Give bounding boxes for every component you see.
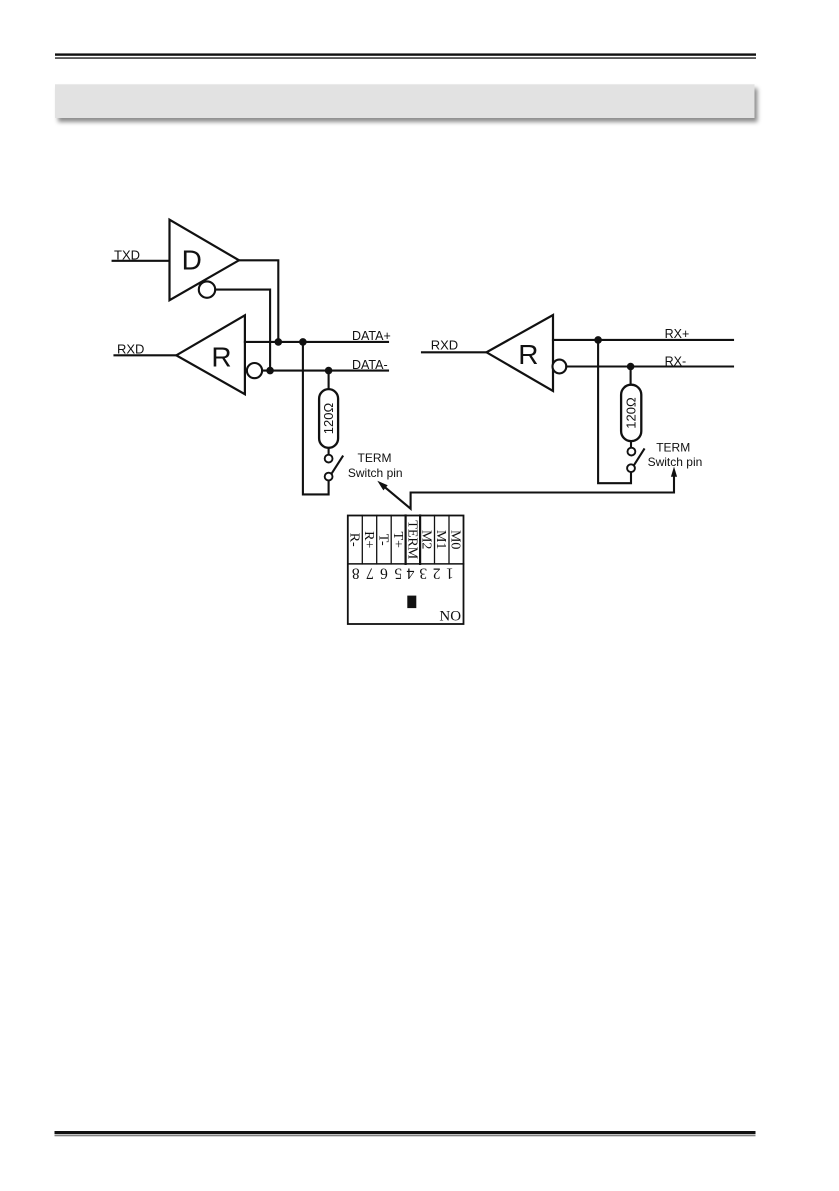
svg-text:Switch pin: Switch pin: [348, 466, 403, 480]
TERM switch S1: [325, 455, 343, 481]
svg-text:RXD: RXD: [431, 338, 458, 353]
wire DATA+ to switch bottom: [303, 342, 329, 495]
svg-text:RX-: RX-: [665, 354, 687, 368]
arrowhead at left Switch pin label: [377, 481, 387, 491]
svg-text:NO: NO: [439, 609, 461, 625]
svg-text:T-: T-: [375, 534, 390, 546]
RX+ line: [553, 339, 733, 341]
DIP column separator 5 (TERM right): [419, 516, 421, 564]
resistor R1 120 ohm: [319, 389, 338, 448]
svg-text:R+: R+: [361, 531, 376, 548]
bottom rule thick: [55, 1131, 756, 1134]
arrowhead at right Switch pin label: [671, 467, 677, 477]
svg-text:Switch pin: Switch pin: [648, 455, 703, 469]
svg-text:2: 2: [433, 564, 441, 581]
svg-text:8: 8: [352, 564, 360, 581]
svg-text:TERM: TERM: [404, 520, 419, 559]
svg-text:R: R: [518, 339, 538, 370]
leader line from Switch pin labels to DIP switch: [382, 473, 674, 509]
DIP switch body: [348, 516, 464, 625]
receiver U3 inverting input bubble: [553, 360, 567, 374]
receiver U3 (R): [487, 315, 554, 391]
svg-text:DATA-: DATA-: [352, 358, 388, 372]
bottom rule thin: [55, 1135, 756, 1136]
wire RX- to resistor R2: [630, 367, 632, 386]
driver U1 inverting output bubble: [199, 281, 215, 297]
section header bar: [55, 84, 755, 118]
svg-text:RXD: RXD: [117, 342, 144, 357]
receiver U2 (R): [176, 315, 245, 394]
svg-text:D: D: [182, 245, 202, 276]
svg-text:6: 6: [380, 564, 388, 581]
svg-text:7: 7: [366, 564, 374, 581]
svg-text:M1: M1: [433, 530, 448, 549]
DATA+ line: [245, 341, 388, 343]
DIP switch label row separator: [348, 563, 464, 565]
top rule thick: [55, 53, 756, 55]
svg-text:TXD: TXD: [114, 247, 140, 262]
svg-text:R-: R-: [346, 533, 361, 547]
wire resistor R2 to switch S2: [630, 441, 632, 448]
resistor R2 120 ohm: [621, 385, 641, 441]
svg-text:M0: M0: [448, 530, 463, 549]
RX- line: [566, 365, 733, 367]
svg-text:3: 3: [419, 564, 427, 581]
wire RX+ to switch S2 bottom: [598, 340, 631, 483]
wire DATA- to resistor R1: [328, 371, 330, 390]
wire resistor R1 to switch S1: [328, 448, 330, 455]
svg-text:4: 4: [406, 564, 414, 581]
junction dot DATA- / driver: [266, 367, 274, 375]
DIP switch position indicator (TERM on): [407, 596, 416, 609]
svg-text:RX+: RX+: [665, 327, 690, 341]
junction dot RX-: [627, 363, 635, 371]
svg-text:M2: M2: [419, 530, 434, 549]
junction dot DATA+ / termination: [299, 338, 307, 346]
DIP column separator 2: [376, 516, 378, 564]
wire RXD input: [115, 354, 177, 356]
wire RXD input (right): [422, 351, 487, 353]
svg-text:DATA+: DATA+: [352, 329, 391, 343]
svg-text:1: 1: [446, 564, 454, 581]
top rule thin: [55, 57, 756, 58]
junction dot RX+: [594, 336, 602, 344]
DIP column separator 6: [434, 516, 436, 564]
DIP column separator 4 (TERM left): [405, 516, 407, 564]
svg-text:R: R: [211, 342, 231, 373]
wire TXD input: [113, 260, 170, 262]
driver U1 (D): [170, 220, 240, 301]
DIP column separator 1: [361, 516, 363, 564]
svg-text:TERM: TERM: [358, 451, 392, 465]
receiver U2 inverting input bubble: [247, 363, 262, 378]
DATA- line: [262, 370, 388, 372]
svg-text:120Ω: 120Ω: [321, 403, 336, 435]
junction dot DATA+ / driver: [275, 338, 283, 346]
TERM switch S2: [627, 448, 644, 472]
wire driver bubble to DATA-: [215, 290, 270, 371]
wire driver output to DATA+: [239, 260, 278, 342]
DIP column separator 3: [390, 516, 392, 564]
svg-text:120Ω: 120Ω: [624, 397, 639, 429]
junction dot DATA- / resistor: [325, 367, 333, 375]
DIP column separator 7: [448, 516, 450, 564]
svg-text:5: 5: [394, 564, 402, 581]
svg-text:T+: T+: [390, 531, 405, 548]
svg-text:TERM: TERM: [656, 441, 690, 455]
